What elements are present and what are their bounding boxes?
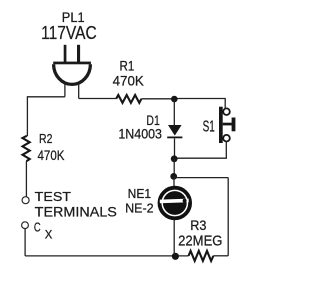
wire node A to S1	[174, 99, 225, 109]
svg-text:R1: R1	[120, 59, 135, 74]
resistor R3	[189, 251, 214, 261]
connector PL1 plug	[53, 45, 91, 85]
diode D1	[167, 125, 182, 138]
svg-text:NE-2: NE-2	[125, 200, 154, 215]
wire bottom	[25, 255, 188, 257]
junction node C	[170, 173, 177, 180]
svg-text:NE1: NE1	[128, 186, 152, 201]
wire CX to bottom	[24, 229, 26, 256]
wire R1 to node A	[141, 98, 174, 100]
wire R2 to test terminal	[25, 161, 27, 196]
wire top to R1	[79, 98, 117, 100]
resistor R2	[23, 136, 30, 161]
resistor R1	[116, 95, 141, 103]
wire right rail	[227, 178, 229, 256]
test terminal lower CX	[22, 222, 29, 229]
switch S1	[219, 107, 235, 143]
svg-text:470K: 470K	[113, 74, 145, 89]
junction node A	[171, 96, 178, 103]
svg-text:1N4003: 1N4003	[118, 127, 162, 142]
svg-text:TEST: TEST	[35, 189, 71, 204]
svg-text:22MEG: 22MEG	[178, 234, 222, 250]
junction node B	[171, 155, 178, 162]
wire S1 to node B	[174, 142, 226, 158]
wire plug left lead	[64, 84, 66, 97]
neon lamp NE1	[160, 188, 191, 219]
wire node C to right rail	[174, 177, 229, 179]
wire NE1 to node D	[173, 220, 175, 257]
svg-text:TERMINALS: TERMINALS	[35, 205, 117, 220]
wire node A to D1	[173, 99, 175, 125]
wire left rail	[26, 96, 28, 136]
svg-text:X: X	[45, 227, 53, 241]
wire right rail to R3	[213, 255, 228, 257]
wire top left	[27, 96, 65, 98]
svg-text:S1: S1	[203, 119, 215, 136]
wire node B to node C	[173, 159, 175, 177]
svg-text:R2: R2	[39, 131, 52, 146]
wire node C to NE1	[173, 176, 175, 187]
svg-text:117VAC: 117VAC	[41, 22, 97, 43]
svg-text:R3: R3	[190, 218, 206, 233]
svg-text:470K: 470K	[38, 147, 66, 163]
wire plug right lead	[78, 84, 80, 99]
svg-text:C: C	[34, 220, 41, 235]
wire D1 to node B	[174, 138, 176, 159]
test terminal upper	[22, 197, 29, 204]
junction node D	[172, 253, 179, 260]
